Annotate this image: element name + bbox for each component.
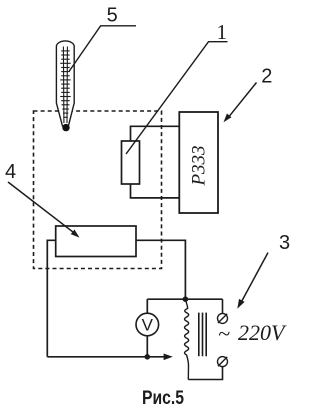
svg-text:V: V [142,316,154,335]
resistor R4 (heater) [56,226,136,257]
voltmeter V [136,313,159,336]
wire: resistor R4 left lead down to slider bus [47,240,55,356]
thermometer (sensor 5) [56,41,74,131]
capillary [62,47,65,124]
node B junction dot (voltmeter bottom) [145,354,151,360]
svg-text:5: 5 [107,5,118,27]
dashed boundary box (system under test) [34,111,162,269]
bulb [62,124,69,131]
mains terminal bottom (circle with slash) [218,357,228,367]
svg-text:2: 2 [261,66,272,88]
wire: bracket from R1 to P333 box [131,126,180,141]
transformer T1 primary coil (autotransformer winding) [185,299,189,379]
svg-text:4: 4 [5,161,16,183]
resistor R1 (thermometer resistance) [122,141,140,184]
wire: terminal side of transformer [222,299,224,313]
svg-text:3: 3 [279,232,290,254]
wire: output bus from voltmeter top to transformer terminal [147,298,222,300]
wire: voltmeter top stub [146,299,148,313]
mains terminal top (circle with slash) [218,313,228,323]
wire: voltmeter bottom stub [146,336,148,357]
svg-text:Р333: Р333 [189,145,210,186]
transformer T1 core [199,313,206,357]
wire: resistor R4 right lead to junction A [136,240,185,299]
svg-text:~: ~ [218,321,230,346]
svg-text:1: 1 [216,20,227,44]
measuring bridge U1 "P333" box [179,112,218,213]
svg-text:Рис.5: Рис.5 [142,388,184,409]
scale ticks [60,51,70,117]
svg-text:220V: 220V [238,320,287,345]
node A junction dot [183,296,189,302]
wire: slider bus with wiper arrow to coil [47,356,164,358]
